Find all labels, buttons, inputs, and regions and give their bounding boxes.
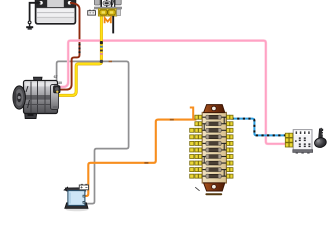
battery polarity icon (above regulator) (79, 184, 88, 190)
wire: black stub below fuse holder (112, 16, 114, 33)
ignition switch S1 (293, 130, 313, 154)
fuse F1 (202, 115, 226, 119)
terminal block (nodes 30/67) (54, 86, 60, 93)
alternator G1 (13, 77, 60, 118)
fuse F6 (202, 148, 226, 152)
wire: brown, battery + (term 30) to alternator (57, 3, 79, 90)
fuse box: internal jumpers (204, 117, 224, 176)
main body (24, 81, 58, 114)
terminals on right edge (83, 195, 86, 198)
node: yellow/gray crossing junction (100, 60, 103, 63)
mounting foot (25, 111, 38, 119)
wire: blue/black dashed, fuse box to ignition switch (232, 119, 286, 136)
wire: orange, fuse box feed to voltage regulator (85, 108, 197, 197)
fuse F2 (202, 122, 226, 126)
rear end cap (51, 85, 59, 110)
fuse box FB (10 fuses) (195, 105, 226, 196)
fuse F4 (202, 135, 226, 139)
bottom cap (204, 183, 225, 191)
fuse F3 (202, 128, 226, 132)
fuse box: fuses F1-F10 (202, 115, 226, 178)
fuse F10 (202, 174, 226, 178)
voltage regulator relay (64, 187, 89, 211)
wire: pink, alternator term 67 to ignition switch (57, 41, 285, 144)
wire colour markers on yellow drop (100, 46, 103, 55)
body (202, 112, 226, 183)
dark lid (65, 188, 85, 191)
ignition switch connector (yellow) (285, 133, 293, 147)
ignition key (314, 128, 328, 149)
fuse F7 (202, 155, 226, 159)
fuse box: right connector column (227, 115, 233, 178)
fuse F8 (202, 161, 226, 165)
wire: battery negative (black) to chassis (28, 3, 40, 27)
mounting ear top-left (64, 187, 69, 191)
fuse holder block (top, behind battery icon) (94, 0, 121, 16)
battery GB1 (12V accumulator, cropped at top) (36, 0, 76, 24)
fuse F5 (202, 141, 226, 145)
wire: yellow, fuse block to alternator (57, 16, 102, 96)
ground (chassis) symbol (26, 26, 33, 29)
wire: gray, alternator to voltage regulator (57, 61, 129, 203)
blue body (68, 191, 85, 206)
fan ring behind body (22, 85, 32, 111)
fins near front (26, 86, 28, 92)
mounting bar under box (205, 193, 222, 195)
orange M mark under fuse holder (105, 18, 111, 23)
marker tick on gray run (109, 61, 112, 63)
svg-text:30: 30 (58, 81, 62, 85)
svg-text:67: 67 (54, 75, 58, 79)
battery polarity icon (top, next to fuse holder) (88, 10, 96, 15)
leader tick bottom-left (195, 187, 199, 191)
fuse box: left connector column (190, 115, 202, 178)
top lug (34, 77, 43, 83)
fuse F9 (202, 168, 226, 172)
node: yellow/pink junction (100, 41, 103, 44)
top cap (204, 105, 225, 113)
black base (65, 203, 88, 209)
pulley (13, 86, 25, 109)
